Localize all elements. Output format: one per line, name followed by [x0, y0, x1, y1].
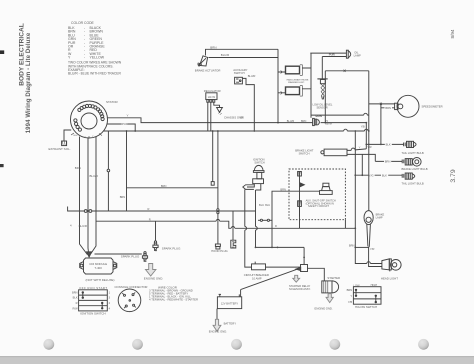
aux shutoff switch button: [320, 183, 333, 194]
svg-text:BRN: BRN: [72, 290, 78, 294]
binder hole ball 1: [43, 339, 54, 350]
warmer element stubs left: [278, 72, 286, 93]
svg-text:LAMP: LAMP: [376, 216, 383, 220]
svg-text:BRN: BRN: [347, 288, 353, 292]
headlight wire 2: [369, 247, 382, 266]
starter motor: [322, 281, 339, 293]
wire BLU/R from aux switch down to rail: [242, 78, 254, 131]
pilot lamp wire 1: [310, 52, 346, 54]
svg-text:PUR: PUR: [329, 53, 335, 57]
dashed box corner drop to bus: [344, 220, 346, 229]
inline connector on x108 wire: [107, 169, 110, 172]
svg-text:1: 1: [109, 290, 111, 294]
spark plug 1 lead from CDI lead bus: [155, 221, 157, 241]
brake light switch plunger: [321, 151, 324, 154]
riser from top rail through rails to brake pilot: [368, 71, 370, 211]
left edge scan tick 2: [0, 164, 4, 167]
headlight socket: [382, 259, 389, 270]
staircase connector: [231, 240, 236, 248]
svg-text:BRN: BRN: [385, 160, 391, 164]
taper wires below pilot: [367, 224, 371, 247]
link wire y247: [355, 246, 368, 248]
battery cable corner: [240, 290, 242, 297]
svg-text:SENSOR: SENSOR: [317, 105, 328, 109]
svg-text:LR-W: LR-W: [208, 95, 216, 99]
binder hole ball 5: [418, 339, 429, 350]
spark plug 1: [153, 241, 158, 251]
CDI high tension lead to spark plug 2: [95, 253, 142, 255]
svg-text:3: 3: [109, 296, 111, 300]
magneto drop wire 2: [87, 138, 89, 211]
svg-text:BRN: BRN: [349, 243, 355, 247]
branch wire down to tail lamp 1: [380, 104, 382, 144]
headlight bulb: [391, 260, 402, 271]
aux shutoff internal wire: [299, 172, 301, 217]
svg-text:YELLOW: YELLOW: [90, 56, 105, 60]
drop wire riser to CDI funnel mid: [87, 211, 90, 253]
handlebar warmer element 1: [286, 65, 303, 76]
svg-text:SWITCH: SWITCH: [234, 71, 245, 75]
svg-text:Y/B: Y/B: [348, 300, 352, 304]
BRN crossover wire to hood plug column: [127, 187, 218, 189]
tail lamp feed vertical C from Y rail: [365, 123, 367, 149]
wire B branch to tail lamp node: [361, 154, 363, 175]
svg-text:Y/R: Y/R: [370, 247, 374, 251]
svg-text:WARMER ELMT.: WARMER ELMT.: [288, 81, 305, 84]
svg-text:R: R: [275, 224, 277, 228]
svg-text:BLU: BLU: [265, 203, 270, 207]
svg-text:Y: Y: [359, 145, 361, 149]
battery ground wire: [216, 309, 218, 320]
warmer element stubs right: [302, 68, 311, 89]
regulator wire pin3 to chassis ground: [214, 102, 220, 107]
svg-text:Y/B: Y/B: [361, 126, 365, 129]
svg-text:Y: Y: [350, 294, 352, 298]
regulator box LR-W: [206, 93, 217, 100]
tail lamp 3 wire: [355, 174, 402, 176]
magneto/stator M1 outer circle: [71, 101, 108, 138]
rail R1 y115 to speedo riser: [311, 113, 369, 115]
svg-text:(NOT WITH DELUXE): (NOT WITH DELUXE): [86, 278, 115, 282]
svg-text:BLU/R: BLU/R: [287, 120, 295, 123]
speedometer circle: [397, 95, 419, 117]
svg-text:BRN: BRN: [385, 106, 391, 110]
svg-text:BRN: BRN: [75, 166, 81, 170]
hood plug connector: [215, 244, 220, 249]
hood plug drop wire: [217, 131, 219, 244]
svg-text:-: -: [84, 56, 86, 60]
svg-text:HEAD LIGHT: HEAD LIGHT: [381, 276, 398, 280]
svg-text:CONSOLE CONNECTOR: CONSOLE CONNECTOR: [115, 285, 148, 289]
svg-text:BRN: BRN: [120, 195, 126, 199]
tail lamp 2 wire: [375, 160, 402, 162]
main feed trunk V355 from BRN rail to headlight: [355, 131, 382, 264]
magneto inner circle: [81, 113, 97, 129]
chassis ground symbol: [217, 108, 223, 113]
svg-text:TAIL LIGHT BULB: TAIL LIGHT BULB: [402, 151, 424, 155]
svg-text:STATOR: STATOR: [106, 100, 119, 104]
svg-text:R/W: R/W: [72, 306, 78, 310]
svg-text:PUR: PUR: [122, 122, 128, 126]
hi/low switch table box: [353, 287, 381, 305]
svg-text:SWITCH: SWITCH: [254, 160, 264, 164]
battery ground arrow: [213, 319, 221, 331]
top rail to speedometer: [325, 70, 369, 72]
svg-text:ENGINE GND.: ENGINE GND.: [209, 330, 227, 334]
svg-text:BLU/R: BLU/R: [90, 174, 98, 178]
svg-text:ENGINE GND.: ENGINE GND.: [144, 277, 164, 281]
svg-text:BRN: BRN: [316, 114, 322, 118]
feeder vertical x278: [277, 49, 279, 122]
pilot lamp wire 2 from sensor: [322, 57, 346, 79]
svg-text:8/94: 8/94: [450, 29, 455, 38]
aux shutoff top terminal: [298, 172, 302, 177]
tail lamp 3 socket: [405, 173, 415, 179]
BRN branch vertical from rail to bus A: [126, 131, 128, 211]
svg-text:R: R: [148, 207, 150, 211]
svg-text:R: R: [149, 217, 151, 221]
svg-text:BRN: BRN: [280, 187, 286, 191]
regulator wire pin2 to BRN rail: [210, 102, 212, 131]
svg-text:BLK: BLK: [386, 143, 391, 147]
svg-text:BRN: BRN: [161, 184, 167, 188]
wire BLU/R from actuator: [209, 57, 279, 59]
svg-text:ENGINE GND.: ENGINE GND.: [315, 306, 333, 310]
key switch output wires: [247, 184, 261, 190]
svg-text:SPEEDOMETER: SPEEDOMETER: [422, 105, 443, 109]
staircase plug drop from bus A: [232, 211, 234, 240]
spark plug 2: [142, 252, 147, 262]
brake actuator symbol: [198, 56, 208, 67]
aux shutoff drop to bus: [299, 206, 301, 228]
svg-text:BRAKE ACTUATOR: BRAKE ACTUATOR: [195, 69, 221, 73]
svg-text:Y: Y: [127, 113, 129, 117]
hi-beam pilot bulb on Y rail: [313, 118, 320, 125]
table right pin numbers: [109, 290, 111, 310]
svg-text:T-400: T-400: [95, 266, 103, 270]
oil pilot lamp symbol: [346, 50, 350, 58]
battery terminals: [219, 294, 240, 296]
CDI module box: [84, 258, 114, 274]
handlebar warmer element 2: [286, 86, 303, 97]
speedometer bulb: [395, 103, 403, 109]
svg-text:OR: OR: [240, 117, 244, 120]
svg-text:Y/G: Y/G: [369, 173, 374, 177]
circuit breaker box: [252, 264, 266, 270]
drop wire riser to CDI funnel right: [91, 211, 96, 254]
svg-text:HI/LOW SWITCH: HI/LOW SWITCH: [355, 305, 377, 309]
auxiliary switch symbol: [235, 77, 243, 84]
battery box: [217, 297, 241, 309]
svg-text:4: 4: [70, 224, 72, 228]
magneto drop wire 3: [95, 137, 97, 212]
junction tick on top rail: [344, 70, 346, 72]
engine ground arrow under spark plugs: [146, 264, 156, 277]
table contact dots and ties: [82, 291, 104, 309]
tail lamp 2 plug prongs: [402, 160, 404, 164]
svg-text:BLK: BLK: [382, 173, 387, 177]
svg-text:BLU/R: BLU/R: [221, 53, 229, 57]
speedometer wires: [369, 104, 395, 108]
inline connectors near dashed box: [258, 219, 272, 221]
aux shutoff wire to button: [300, 190, 320, 192]
low oil level sensor: [317, 79, 327, 100]
brake lamp socket and bulb: [405, 158, 421, 167]
svg-text:Y/R: Y/R: [367, 145, 371, 149]
starter relay box: [301, 265, 308, 272]
twin drop wire from rail: [212, 131, 214, 182]
stator coil group bottom-left: [74, 119, 82, 131]
starter relay ground arrow: [293, 275, 300, 282]
starter engine ground arrow: [326, 294, 333, 303]
exhaust solenoid connector: [62, 141, 67, 146]
svg-text:BODY ELECTRICAL: BODY ELECTRICAL: [19, 23, 26, 86]
connector pins: [122, 292, 136, 308]
hi/low table left labels: [347, 288, 353, 304]
svg-text:BLK: BLK: [73, 296, 78, 300]
svg-text:BRAKE LIGHT BULB: BRAKE LIGHT BULB: [402, 167, 428, 171]
hi/low table dots and ties: [355, 289, 377, 304]
svg-text:4 TERMINAL - RED/WHITE - START: 4 TERMINAL - RED/WHITE - STARTER: [149, 297, 198, 301]
regulator wire pin1 to BRN rail: [207, 102, 209, 131]
svg-text:BLK: BLK: [74, 135, 79, 137]
left edge scan tick 1: [0, 50, 4, 54]
aux shutoff bottom terminal: [298, 201, 302, 207]
junction of BRN rail on riser: [368, 130, 370, 132]
key wire left down to circuit breaker (hop over bus): [245, 189, 252, 267]
svg-text:BLU/R: BLU/R: [79, 224, 87, 228]
console connector circle: [118, 289, 141, 312]
binder hole ball 4: [329, 339, 340, 350]
svg-text:STARTER: STARTER: [327, 276, 340, 280]
wire color legend rows: [149, 288, 198, 301]
color code legend: [68, 21, 122, 76]
svg-text:BLU: BLU: [259, 203, 264, 207]
stator coil group right: [97, 108, 105, 121]
aux shutoff actuation arrow: [300, 183, 304, 187]
bottom page edge strip: [0, 357, 474, 364]
riser from top rail down to Y rail: [324, 71, 326, 123]
svg-text:2: 2: [109, 301, 111, 305]
wire long BRN rail y131 from magneto edge to console column: [104, 129, 369, 131]
brake pilot lamp oval: [364, 211, 373, 225]
svg-text:TAIL LIGHT BULB: TAIL LIGHT BULB: [402, 182, 424, 186]
vertical wire x108 from BRN rail to bus A: [107, 131, 109, 211]
svg-text:BRN: BRN: [210, 45, 216, 49]
stator tiny terminal ticks: [71, 133, 102, 138]
bullet connectors on bus A: [84, 210, 87, 213]
relay riser from junction: [303, 247, 305, 264]
junction run y247: [256, 246, 305, 248]
regulator pins: [207, 100, 209, 103]
circuit breaker output wire: [266, 266, 301, 268]
inline connector at bus A crossing: [217, 209, 219, 211]
tail lamp 1 wire: [366, 143, 403, 145]
svg-text:SPARK PLUG: SPARK PLUG: [121, 255, 140, 259]
riser from junction to aux shutoff: [272, 191, 300, 247]
svg-text:BLU/R - BLUE WITH RED TRACER: BLU/R - BLUE WITH RED TRACER: [68, 72, 121, 76]
riser x311 warmers to BRN junction: [310, 53, 312, 118]
svg-text:Y: Y: [68, 56, 71, 60]
table row lines: [79, 295, 108, 306]
wire magneto left stub to exhaust solenoid: [64, 130, 71, 141]
svg-text:BLU/R: BLU/R: [248, 74, 256, 78]
svg-text:HOOD PLUG: HOOD PLUG: [211, 249, 228, 253]
svg-text:REGULATOR: REGULATOR: [204, 89, 221, 93]
bus B horizontal y221 stepping to y228: [96, 219, 355, 228]
key output connector flag: [243, 185, 254, 190]
svg-text:SOLENOID ASSY.: SOLENOID ASSY.: [289, 287, 311, 291]
svg-text:4: 4: [109, 306, 111, 310]
wire BRN from actuator to warmer column: [206, 49, 279, 55]
CDI left mounting ear: [80, 262, 84, 270]
CDI right mounting ear: [113, 262, 117, 270]
tail lamp 1 socket: [407, 141, 417, 147]
key wire right down to junction y247 (hop over bus): [256, 190, 258, 247]
brake light switch body: [324, 149, 347, 156]
svg-text:10 AMP: 10 AMP: [252, 277, 262, 281]
svg-text:SAFETY CIRCUIT: SAFETY CIRCUIT: [308, 204, 329, 208]
battery diagonal cable with arrowhead: [241, 269, 298, 289]
Y rail continuation after bulb: [321, 122, 367, 124]
wire Y from magneto to right rail: [108, 118, 313, 123]
dashed option box: [289, 169, 345, 220]
svg-text:SWITCH: SWITCH: [299, 152, 310, 156]
ignition key switch symbol: [253, 165, 264, 183]
svg-text:CIRCUIT BREAKER: CIRCUIT BREAKER: [244, 273, 269, 277]
svg-text:IGNITION SWITCH: IGNITION SWITCH: [80, 312, 105, 316]
svg-text:LAMP: LAMP: [354, 54, 361, 58]
svg-text:COLOR CODE: COLOR CODE: [71, 21, 95, 25]
binder hole ball 2: [132, 339, 143, 350]
headlight socket stub: [389, 270, 391, 272]
drop wire riser to CDI funnel left: [80, 211, 88, 255]
bus A horizontal y211: [68, 207, 256, 212]
junction tick at speedo branch: [380, 103, 382, 105]
svg-text:R: R: [76, 301, 78, 305]
wire PUR from magneto down to rail: [107, 124, 135, 131]
stator coil group top: [78, 104, 97, 111]
brake switch wire A to tail feed: [347, 148, 366, 150]
svg-text:SPARK PLUG: SPARK PLUG: [162, 246, 181, 250]
table left wire labels: [72, 290, 78, 310]
svg-text:BRN: BRN: [301, 120, 306, 123]
funnel arrowhead into CDI: [87, 252, 92, 257]
ignition switch table box: [79, 290, 108, 311]
tail lamp 1 plug prongs: [404, 143, 406, 147]
svg-text:1994 Wiring Diagram - Lite Del: 1994 Wiring Diagram - Lite Deluxe: [26, 32, 32, 133]
svg-text:12V BATTERY: 12V BATTERY: [221, 301, 239, 305]
binder hole ball 3: [231, 339, 242, 350]
svg-text:3.79: 3.79: [450, 169, 457, 182]
tail lamp 3 plug prongs: [402, 174, 404, 178]
svg-text:BATTERY: BATTERY: [224, 322, 237, 326]
brake switch wire B to brake bulb: [347, 154, 375, 161]
magneto drop wire 1 (BLK): [79, 137, 81, 212]
relay output to starter: [308, 268, 325, 281]
svg-text:EXHAUST SOL.: EXHAUST SOL.: [49, 147, 71, 151]
